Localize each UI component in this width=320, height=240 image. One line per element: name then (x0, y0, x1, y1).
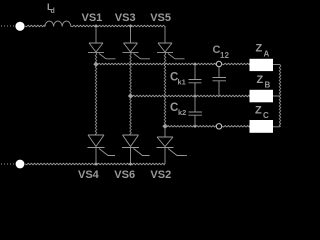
svg-text:d: d (51, 8, 55, 15)
svg-text:VS3: VS3 (115, 12, 136, 24)
svg-text:VS1: VS1 (82, 12, 103, 24)
svg-text:B: B (265, 80, 271, 89)
svg-text:A: A (264, 49, 270, 58)
svg-text:Z: Z (255, 104, 262, 116)
svg-text:VS6: VS6 (114, 169, 135, 181)
svg-text:C: C (263, 111, 269, 120)
svg-text:k1: k1 (178, 78, 186, 87)
svg-text:VS4: VS4 (78, 169, 100, 181)
svg-text:12: 12 (220, 51, 229, 60)
svg-text:VS2: VS2 (150, 169, 171, 181)
svg-text:k2: k2 (178, 108, 186, 117)
svg-text:VS5: VS5 (150, 12, 171, 24)
svg-text:Z: Z (257, 74, 264, 86)
svg-text:Z: Z (256, 43, 263, 55)
